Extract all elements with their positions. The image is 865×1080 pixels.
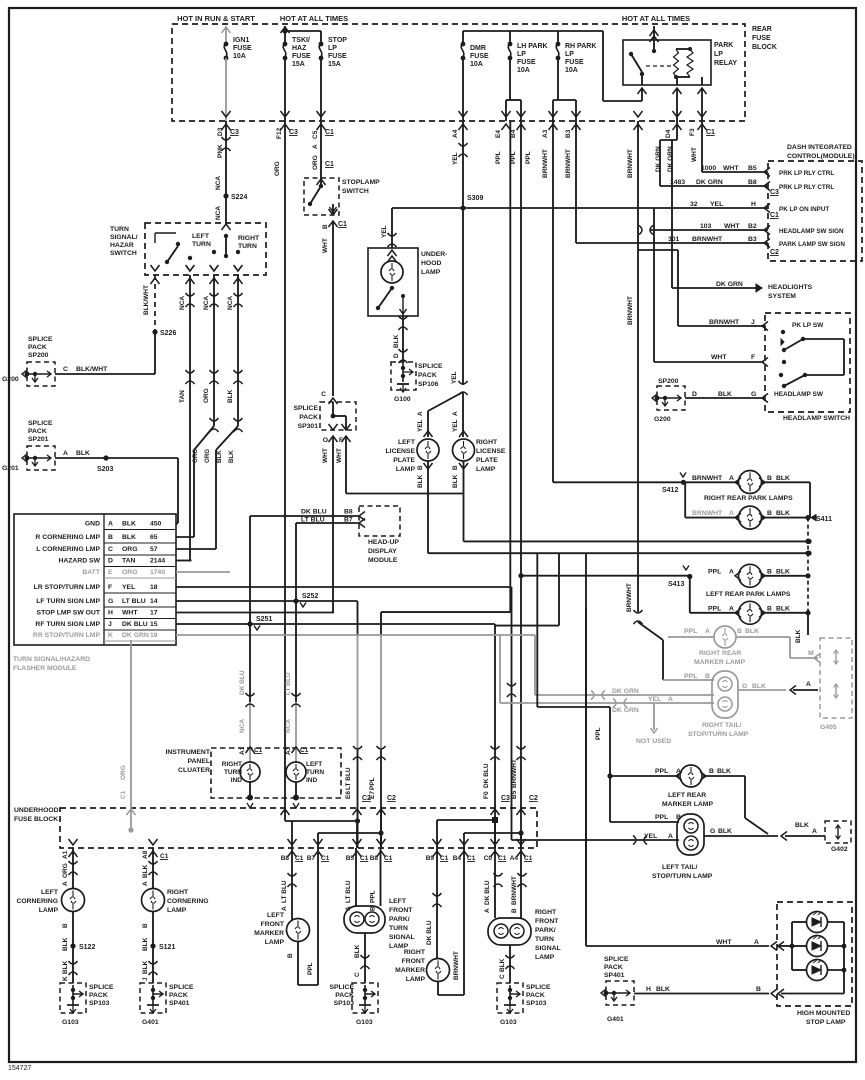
svg-text:65: 65 <box>150 534 158 541</box>
svg-text:LEFT: LEFT <box>398 439 416 446</box>
svg-text:TAN: TAN <box>179 390 186 403</box>
svg-text:C: C <box>108 546 113 553</box>
svg-text:PPL: PPL <box>684 628 697 635</box>
svg-text:B: B <box>452 465 459 470</box>
svg-text:A1: A1 <box>62 850 69 859</box>
svg-text:FUSE BLOCK: FUSE BLOCK <box>14 816 58 823</box>
svg-text:IGN1: IGN1 <box>233 37 249 44</box>
svg-text:C: C <box>321 391 326 398</box>
svg-text:F0: F0 <box>483 791 490 799</box>
svg-text:S252: S252 <box>302 593 318 600</box>
svg-text:C3: C3 <box>230 129 239 136</box>
svg-text:BLK: BLK <box>354 944 361 958</box>
svg-text:HIGH MOUNTED: HIGH MOUNTED <box>797 1010 850 1017</box>
svg-text:PARK LAMP SW SIGN: PARK LAMP SW SIGN <box>779 241 845 248</box>
svg-text:O: O <box>323 437 328 444</box>
svg-text:LT BLU: LT BLU <box>281 880 288 903</box>
svg-text:A4: A4 <box>510 855 519 862</box>
svg-text:YEL: YEL <box>417 419 424 432</box>
svg-text:TURN: TURN <box>224 769 242 776</box>
svg-text:WHT: WHT <box>122 610 138 617</box>
svg-text:G405: G405 <box>820 724 837 731</box>
svg-text:RH PARK: RH PARK <box>565 43 596 50</box>
svg-text:J: J <box>108 621 112 628</box>
svg-text:STOP/TURN LAMP: STOP/TURN LAMP <box>652 873 713 880</box>
svg-text:D: D <box>692 391 697 398</box>
svg-text:F: F <box>339 437 343 444</box>
svg-text:STOPLAMP: STOPLAMP <box>342 179 380 186</box>
svg-text:LAMP: LAMP <box>476 466 496 473</box>
svg-text:FUSE: FUSE <box>328 53 347 60</box>
svg-text:FRONT: FRONT <box>389 907 413 914</box>
svg-text:J: J <box>142 977 149 981</box>
svg-text:HOOD: HOOD <box>421 260 441 267</box>
svg-text:TURN SIGNAL/HAZARD: TURN SIGNAL/HAZARD <box>13 656 90 663</box>
svg-text:C: C <box>499 974 506 979</box>
svg-text:C1: C1 <box>338 221 347 228</box>
svg-text:PACK: PACK <box>169 992 188 999</box>
svg-text:SPLICE: SPLICE <box>418 363 443 370</box>
svg-text:G103: G103 <box>356 1019 373 1026</box>
svg-text:BLK: BLK <box>776 569 790 576</box>
svg-text:F3: F3 <box>689 128 696 136</box>
svg-text:A3: A3 <box>542 129 549 138</box>
svg-text:SPLICE: SPLICE <box>293 405 318 412</box>
svg-text:S224: S224 <box>231 194 247 201</box>
svg-text:MODULE: MODULE <box>368 557 398 564</box>
svg-text:SPLICE: SPLICE <box>169 984 194 991</box>
svg-text:PPL: PPL <box>708 606 721 613</box>
svg-text:B2: B2 <box>748 223 757 230</box>
svg-text:NOT USED: NOT USED <box>636 738 671 745</box>
svg-text:ORG: ORG <box>120 765 127 780</box>
svg-text:2144: 2144 <box>150 558 165 565</box>
svg-text:UNDERHOOD: UNDERHOOD <box>14 807 59 814</box>
svg-text:57: 57 <box>150 546 158 553</box>
svg-text:BRNWHT: BRNWHT <box>626 583 633 612</box>
svg-text:LAMP: LAMP <box>167 907 187 914</box>
svg-text:A3: A3 <box>285 746 292 755</box>
svg-text:C1: C1 <box>524 855 533 862</box>
svg-text:WHT: WHT <box>723 165 739 172</box>
svg-text:YEL: YEL <box>644 833 657 840</box>
svg-text:B7: B7 <box>307 855 316 862</box>
svg-text:LT BLU: LT BLU <box>122 598 146 605</box>
svg-text:14: 14 <box>150 598 158 605</box>
svg-text:B: B <box>767 510 772 517</box>
svg-text:GND: GND <box>85 521 100 528</box>
svg-text:TURN: TURN <box>306 769 324 776</box>
svg-text:PACK: PACK <box>299 414 318 421</box>
svg-text:BLK: BLK <box>776 475 790 482</box>
svg-text:A: A <box>668 696 673 703</box>
svg-text:RR STOP/TURN LMP: RR STOP/TURN LMP <box>33 632 101 639</box>
svg-text:B8: B8 <box>344 509 353 516</box>
svg-text:LEFT: LEFT <box>267 912 285 919</box>
svg-text:DK BLU: DK BLU <box>122 621 148 628</box>
svg-text:UNDER-: UNDER- <box>421 251 447 258</box>
svg-text:NCA: NCA <box>215 176 222 190</box>
svg-text:ORG: ORG <box>122 569 137 576</box>
svg-text:C: C <box>63 366 68 373</box>
svg-text:B5: B5 <box>748 165 757 172</box>
svg-text:LAMP: LAMP <box>396 466 416 473</box>
svg-text:1483: 1483 <box>670 179 685 186</box>
svg-text:G: G <box>710 828 715 835</box>
svg-text:A4: A4 <box>452 129 459 138</box>
svg-text:BLK: BLK <box>718 391 732 398</box>
svg-text:LAMP: LAMP <box>406 976 426 983</box>
svg-text:HOT AT ALL TIMES: HOT AT ALL TIMES <box>280 14 348 23</box>
svg-text:PPL: PPL <box>495 151 502 164</box>
svg-text:B: B <box>417 465 424 470</box>
svg-text:PPL: PPL <box>369 777 376 790</box>
svg-text:S121: S121 <box>159 944 175 951</box>
svg-text:BLK: BLK <box>452 474 459 488</box>
svg-text:ORG: ORG <box>203 388 210 403</box>
svg-text:BRNWHT: BRNWHT <box>627 149 634 178</box>
svg-text:BLK: BLK <box>76 450 90 457</box>
svg-text:MARKER: MARKER <box>395 967 425 974</box>
svg-text:A: A <box>281 906 288 911</box>
svg-text:DK GRN: DK GRN <box>122 632 149 639</box>
svg-text:C1: C1 <box>325 161 334 168</box>
svg-text:PRK LP RLY CTRL: PRK LP RLY CTRL <box>779 184 834 191</box>
svg-text:SP103: SP103 <box>526 1000 547 1007</box>
svg-text:G103: G103 <box>500 1019 517 1026</box>
svg-text:DK GRN: DK GRN <box>716 281 743 288</box>
svg-text:B9: B9 <box>426 855 435 862</box>
svg-text:LP: LP <box>328 45 337 52</box>
svg-text:LEFT TAIL/: LEFT TAIL/ <box>662 864 697 871</box>
svg-text:DK BLU: DK BLU <box>301 509 327 516</box>
svg-text:G201: G201 <box>2 465 19 472</box>
svg-text:SPLICE: SPLICE <box>526 984 551 991</box>
svg-text:BRNWHT: BRNWHT <box>565 149 572 178</box>
svg-text:SP401: SP401 <box>604 972 625 979</box>
svg-text:L CORNERING LMP: L CORNERING LMP <box>36 546 100 553</box>
svg-text:10A: 10A <box>565 67 578 74</box>
svg-text:SWITCH: SWITCH <box>342 188 369 195</box>
svg-text:BLK: BLK <box>142 937 149 951</box>
svg-text:FUSE: FUSE <box>292 53 311 60</box>
svg-text:INSTRUMENT: INSTRUMENT <box>165 749 210 756</box>
svg-text:TSKI/: TSKI/ <box>292 37 310 44</box>
svg-text:YEL: YEL <box>710 201 723 208</box>
svg-text:LICENSE: LICENSE <box>386 448 416 455</box>
svg-text:B5: B5 <box>511 790 518 799</box>
svg-text:17: 17 <box>150 610 158 617</box>
svg-text:BLK: BLK <box>122 534 136 541</box>
svg-text:MARKER LAMP: MARKER LAMP <box>694 659 745 666</box>
svg-text:SPLICE: SPLICE <box>329 984 354 991</box>
svg-text:HEADLAMP SW: HEADLAMP SW <box>774 391 824 398</box>
svg-text:RIGHT: RIGHT <box>238 235 260 242</box>
svg-text:B5: B5 <box>346 855 355 862</box>
svg-text:B: B <box>767 606 772 613</box>
svg-text:K: K <box>62 976 69 981</box>
svg-text:NCA: NCA <box>285 719 292 733</box>
svg-text:PLATE: PLATE <box>476 457 498 464</box>
svg-text:PANEL: PANEL <box>187 758 210 765</box>
svg-text:B4: B4 <box>453 855 462 862</box>
svg-text:LT BLU: LT BLU <box>301 517 325 524</box>
svg-text:B: B <box>511 908 518 913</box>
svg-text:C1: C1 <box>325 129 334 136</box>
svg-text:BLK: BLK <box>776 510 790 517</box>
svg-text:ORG: ORG <box>274 161 281 176</box>
svg-text:ORG: ORG <box>192 449 199 463</box>
svg-text:BLOCK: BLOCK <box>752 44 777 51</box>
svg-text:301: 301 <box>668 236 680 243</box>
svg-text:LEFT REAR: LEFT REAR <box>668 792 706 799</box>
svg-text:A: A <box>729 510 734 517</box>
svg-text:B: B <box>756 986 761 993</box>
svg-text:RF TURN SIGN LMP: RF TURN SIGN LMP <box>35 621 100 628</box>
svg-text:C2: C2 <box>770 249 779 256</box>
svg-text:SP201: SP201 <box>28 436 49 443</box>
svg-text:LEFT: LEFT <box>192 233 210 240</box>
svg-text:SPLICE: SPLICE <box>604 956 629 963</box>
svg-text:DK BLU: DK BLU <box>239 670 246 695</box>
svg-text:H: H <box>751 201 756 208</box>
svg-text:PARK/: PARK/ <box>535 927 556 934</box>
svg-text:BLK: BLK <box>776 606 790 613</box>
svg-text:HAZAR: HAZAR <box>110 242 134 249</box>
svg-text:BLK/WHT: BLK/WHT <box>143 285 150 315</box>
svg-text:A: A <box>729 475 734 482</box>
svg-text:C1: C1 <box>467 855 476 862</box>
svg-text:BRNWHT: BRNWHT <box>511 876 518 905</box>
svg-text:LEFT REAR PARK LAMPS: LEFT REAR PARK LAMPS <box>706 591 791 598</box>
svg-text:1740: 1740 <box>150 569 165 576</box>
svg-text:SPLICE: SPLICE <box>89 984 114 991</box>
svg-text:REAR: REAR <box>752 26 772 33</box>
svg-text:C1: C1 <box>706 129 715 136</box>
svg-text:SP200: SP200 <box>658 378 679 385</box>
svg-text:PACK: PACK <box>418 372 437 379</box>
svg-text:B: B <box>142 923 149 928</box>
svg-text:S251: S251 <box>256 616 272 623</box>
svg-text:PARK/: PARK/ <box>389 916 410 923</box>
svg-text:HAZARD SW: HAZARD SW <box>58 558 100 565</box>
svg-text:WHT: WHT <box>322 238 329 253</box>
svg-text:15A: 15A <box>328 61 341 68</box>
svg-text:TURN: TURN <box>389 925 408 932</box>
svg-text:BLK: BLK <box>745 628 759 635</box>
svg-text:FUSE: FUSE <box>517 59 536 66</box>
svg-text:ORG: ORG <box>122 546 137 553</box>
svg-text:C1: C1 <box>360 855 369 862</box>
svg-text:SP106: SP106 <box>418 381 439 388</box>
svg-text:TURN: TURN <box>110 226 129 233</box>
svg-text:RIGHT REAR PARK LAMPS: RIGHT REAR PARK LAMPS <box>704 495 793 502</box>
svg-text:C1: C1 <box>384 855 393 862</box>
svg-text:PPL: PPL <box>525 151 532 164</box>
svg-text:J: J <box>751 319 755 326</box>
svg-text:CLUATER: CLUATER <box>178 767 210 774</box>
svg-text:FUSE: FUSE <box>565 59 584 66</box>
svg-text:PRK LP RLY CTRL: PRK LP RLY CTRL <box>779 170 834 177</box>
svg-text:G402: G402 <box>831 846 848 853</box>
svg-text:DK BLU: DK BLU <box>426 920 433 945</box>
svg-text:DMR: DMR <box>470 45 486 52</box>
svg-text:SIGNAL: SIGNAL <box>535 945 561 952</box>
svg-text:19: 19 <box>150 632 158 639</box>
svg-text:HEADLAMP SWITCH: HEADLAMP SWITCH <box>783 415 850 422</box>
svg-text:YEL: YEL <box>452 419 459 432</box>
svg-text:DK GRN: DK GRN <box>667 146 674 172</box>
svg-text:A: A <box>729 606 734 613</box>
svg-text:MARKER: MARKER <box>254 930 284 937</box>
svg-text:BRNWHT: BRNWHT <box>627 296 634 325</box>
svg-text:G200: G200 <box>654 416 671 423</box>
svg-text:LAMP: LAMP <box>535 954 555 961</box>
svg-text:C0: C0 <box>484 855 493 862</box>
svg-text:RIGHT: RIGHT <box>167 889 189 896</box>
svg-text:YEL: YEL <box>452 152 459 165</box>
svg-text:BLK: BLK <box>142 960 149 974</box>
svg-text:FRONT: FRONT <box>535 918 559 925</box>
svg-text:H: H <box>646 986 651 993</box>
svg-text:HEAD-UP: HEAD-UP <box>368 539 399 546</box>
svg-text:PPL: PPL <box>708 569 721 576</box>
svg-text:BLK: BLK <box>795 629 802 643</box>
svg-text:B: B <box>767 569 772 576</box>
svg-text:B3: B3 <box>748 236 757 243</box>
svg-text:NCA: NCA <box>215 206 222 220</box>
svg-text:YEL: YEL <box>381 225 388 238</box>
svg-text:LAMP: LAMP <box>265 939 285 946</box>
svg-text:32: 32 <box>690 201 698 208</box>
svg-text:TURN: TURN <box>192 241 211 248</box>
svg-text:RELAY: RELAY <box>714 60 737 67</box>
svg-text:PPL: PPL <box>307 962 314 975</box>
svg-text:E6: E6 <box>345 791 352 799</box>
svg-text:TAN: TAN <box>122 558 136 565</box>
svg-text:G: G <box>108 598 113 605</box>
svg-text:BLK/WHT: BLK/WHT <box>76 366 108 373</box>
svg-text:NCA: NCA <box>203 296 210 310</box>
svg-text:BLK: BLK <box>216 450 223 463</box>
svg-text:BRNWHT: BRNWHT <box>511 759 518 788</box>
svg-text:SP301: SP301 <box>298 423 319 430</box>
svg-text:B8: B8 <box>748 179 757 186</box>
svg-text:FUSE: FUSE <box>752 35 771 42</box>
svg-text:10A: 10A <box>517 67 530 74</box>
svg-text:C2: C2 <box>387 795 396 802</box>
svg-text:BLK: BLK <box>417 474 424 488</box>
svg-text:LT BLU: LT BLU <box>345 880 352 903</box>
svg-text:DISPLAY: DISPLAY <box>368 548 397 555</box>
svg-text:C1: C1 <box>160 853 169 860</box>
svg-text:10A: 10A <box>470 61 483 68</box>
svg-text:FUSE: FUSE <box>233 45 252 52</box>
svg-text:S122: S122 <box>79 944 95 951</box>
svg-text:SPLICE: SPLICE <box>28 420 53 427</box>
svg-text:HEADLIGHTS: HEADLIGHTS <box>768 284 813 291</box>
svg-text:E7: E7 <box>369 791 376 799</box>
svg-text:C3: C3 <box>289 129 298 136</box>
svg-text:YEL: YEL <box>451 371 458 384</box>
svg-text:CORNERING: CORNERING <box>16 898 58 905</box>
svg-text:LF TURN SIGN LMP: LF TURN SIGN LMP <box>36 598 100 605</box>
svg-text:STOP: STOP <box>328 37 347 44</box>
svg-text:SP103: SP103 <box>89 1000 110 1007</box>
svg-text:A: A <box>754 939 759 946</box>
svg-text:A: A <box>312 144 319 149</box>
svg-text:K: K <box>108 632 113 639</box>
svg-text:G: G <box>751 391 756 398</box>
svg-text:PPL: PPL <box>595 727 602 740</box>
svg-text:BLK: BLK <box>795 822 809 829</box>
svg-text:BLK: BLK <box>718 828 732 835</box>
svg-text:PACK: PACK <box>604 964 623 971</box>
svg-text:A: A <box>668 833 673 840</box>
svg-text:RIGHT: RIGHT <box>476 439 498 446</box>
svg-text:C1: C1 <box>295 855 304 862</box>
svg-text:A8: A8 <box>142 850 149 859</box>
svg-text:18: 18 <box>150 584 158 591</box>
svg-text:RIGHT TAIL/: RIGHT TAIL/ <box>702 722 742 729</box>
svg-text:B3: B3 <box>565 129 572 138</box>
svg-text:BLK: BLK <box>62 960 69 974</box>
svg-text:B: B <box>705 673 710 680</box>
svg-text:C1: C1 <box>300 747 309 754</box>
svg-text:LT BLU: LT BLU <box>285 672 292 695</box>
svg-text:S309: S309 <box>467 195 483 202</box>
svg-text:G103: G103 <box>62 1019 79 1026</box>
svg-text:BLK: BLK <box>393 334 400 348</box>
svg-text:BRNWHT: BRNWHT <box>692 510 723 517</box>
svg-text:E: E <box>108 569 113 576</box>
svg-text:H: H <box>108 610 113 617</box>
svg-text:ORG: ORG <box>312 155 319 170</box>
svg-text:A: A <box>705 628 710 635</box>
svg-text:PACK: PACK <box>28 428 47 435</box>
svg-text:DK GRN: DK GRN <box>612 688 639 695</box>
svg-text:F: F <box>108 584 112 591</box>
svg-text:G401: G401 <box>142 1019 159 1026</box>
svg-text:SPLICE: SPLICE <box>28 336 53 343</box>
svg-text:A: A <box>142 881 149 886</box>
svg-text:PACK: PACK <box>89 992 108 999</box>
svg-text:DK BLU: DK BLU <box>483 763 490 788</box>
svg-text:WHT: WHT <box>691 147 698 162</box>
svg-text:FRONT: FRONT <box>402 958 426 965</box>
svg-text:A: A <box>729 569 734 576</box>
svg-text:B: B <box>737 628 742 635</box>
svg-text:CORNERING: CORNERING <box>167 898 209 905</box>
svg-text:PACK: PACK <box>28 344 47 351</box>
svg-text:YEL: YEL <box>648 696 661 703</box>
svg-text:C: C <box>354 972 361 977</box>
svg-text:LP: LP <box>565 51 574 58</box>
svg-text:CONTROL(MODULE): CONTROL(MODULE) <box>787 153 855 160</box>
svg-text:SIGNAL: SIGNAL <box>389 934 415 941</box>
svg-text:SYSTEM: SYSTEM <box>768 293 796 300</box>
svg-text:LP: LP <box>714 51 723 58</box>
svg-text:BRNWHT: BRNWHT <box>692 236 723 243</box>
svg-text:D: D <box>393 353 400 358</box>
svg-text:BLK: BLK <box>752 683 766 690</box>
svg-text:SP200: SP200 <box>28 352 49 359</box>
svg-text:C1: C1 <box>254 747 263 754</box>
svg-text:LAMP: LAMP <box>39 907 59 914</box>
svg-text:ORG: ORG <box>62 863 69 878</box>
svg-text:PK LP SW: PK LP SW <box>792 322 824 329</box>
svg-text:BRNWHT: BRNWHT <box>692 475 723 482</box>
